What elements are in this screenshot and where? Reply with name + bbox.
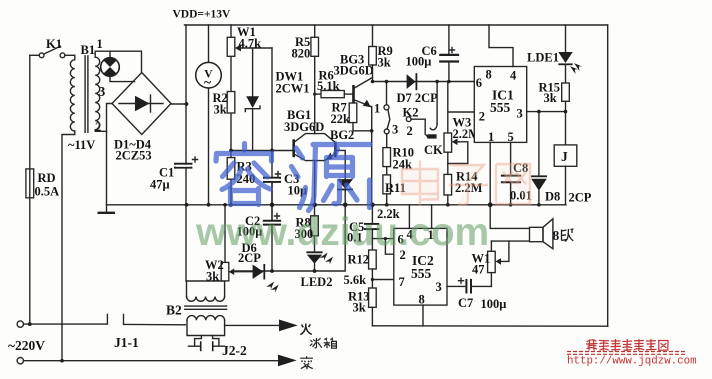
pin5 to C8 [510, 142, 512, 175]
wire fuse to live terminal [29, 198, 31, 324]
B2 primary box [187, 280, 225, 282]
pin1 to bus [489, 142, 491, 204]
diode D7 [397, 73, 439, 105]
transformer B2 [166, 281, 247, 358]
svg-text:5.6k: 5.6k [344, 273, 367, 287]
pink watermark char dian [402, 161, 438, 207]
svg-text:3k: 3k [214, 103, 227, 117]
BG2 base wire right and diode to bus [335, 150, 345, 179]
red stamp chinese [587, 340, 669, 351]
svg-text:3DG6D: 3DG6D [284, 120, 324, 134]
resistor R3 240 [227, 158, 255, 186]
switch K2 [374, 82, 418, 139]
B1 primary bottom to neutral [62, 131, 75, 361]
svg-text:B2: B2 [166, 303, 182, 318]
svg-text:3k: 3k [353, 301, 366, 315]
pin7 wire [372, 279, 393, 281]
red dashed rules [567, 351, 686, 353]
B1 secondary winding [94, 51, 96, 57]
blue watermark char 2 (yuan) [292, 145, 371, 211]
svg-text:555: 555 [411, 266, 432, 281]
svg-text:3: 3 [392, 123, 398, 137]
resistor R7 22k [331, 94, 372, 131]
svg-text:1: 1 [374, 102, 380, 116]
svg-text:LDE1: LDE1 [527, 51, 559, 65]
svg-text:www.dziuu.com: www.dziuu.com [195, 211, 489, 254]
svg-text:100μ: 100μ [481, 297, 507, 311]
label fire [300, 324, 312, 335]
IC1 555 [474, 25, 526, 144]
svg-text:2CW1: 2CW1 [276, 82, 310, 96]
svg-text:J2-2: J2-2 [222, 343, 247, 358]
pin2 jog wire [385, 239, 393, 255]
svg-text:22k: 22k [331, 112, 351, 126]
live wire with J1-1 contact [24, 315, 186, 351]
collector feed from R5/R6 node [314, 94, 316, 134]
svg-text:1: 1 [97, 37, 103, 51]
neutral output arrow [278, 355, 297, 367]
bridge rectifier D1~D4 [112, 73, 171, 163]
svg-text:5.1k: 5.1k [317, 79, 340, 93]
svg-text:2: 2 [407, 124, 413, 138]
indicator lamp [101, 51, 135, 81]
LED LDE1 [527, 25, 582, 83]
wire left drop to fuse [29, 55, 31, 169]
svg-text:~220V: ~220V [8, 338, 45, 353]
emitter vertical below butterfly [314, 161, 316, 205]
base wire R3 top to BG1 [231, 150, 294, 152]
svg-text:47: 47 [472, 263, 485, 277]
pin8 to bottom border [422, 305, 424, 326]
fire output wire with arrow [225, 320, 298, 332]
Darlington pair BG1 BG2 [284, 108, 354, 161]
svg-text:3k: 3k [544, 91, 557, 105]
BG3 emitter vertical down through bus [371, 107, 373, 205]
label ling (neutral) [300, 356, 313, 369]
B1 core [85, 56, 88, 133]
neutral wire [24, 359, 280, 363]
B2 secondary [187, 316, 225, 321]
pink watermark char wang [496, 164, 530, 205]
blue watermark char 1 (rong) [216, 144, 272, 205]
svg-text:3: 3 [436, 280, 442, 294]
svg-text:J1-1: J1-1 [114, 335, 139, 350]
speaker [530, 219, 574, 249]
svg-text:~11V: ~11V [68, 138, 95, 152]
svg-text:1: 1 [488, 130, 494, 144]
voltmeter V [196, 25, 222, 205]
top rail [185, 24, 608, 26]
svg-text:VDD=+13V: VDD=+13V [173, 9, 232, 21]
capacitor C1 [150, 157, 198, 192]
svg-text:K1: K1 [46, 37, 62, 51]
svg-text:2CZ53: 2CZ53 [116, 149, 152, 163]
potentiometer W1 47 [472, 241, 509, 286]
resistor R15 3k [539, 81, 570, 112]
capacitor C6 [406, 25, 460, 82]
jack CK [411, 82, 443, 158]
svg-text:C7: C7 [458, 296, 473, 310]
svg-text:R12: R12 [348, 253, 370, 267]
resistor R8 300 [295, 205, 319, 252]
svg-text:K2: K2 [403, 106, 419, 120]
diode on BG2 line [337, 179, 353, 205]
svg-text:47μ: 47μ [150, 178, 170, 192]
diode D6 with arrows [238, 241, 279, 293]
svg-text:3DG6D: 3DG6D [334, 64, 374, 78]
zener DW1 [245, 48, 309, 151]
label bingxiang [310, 338, 336, 348]
D7 wire [373, 81, 449, 83]
svg-text:J: J [561, 149, 568, 164]
svg-text:0.5A: 0.5A [35, 185, 60, 199]
switch K1 [30, 37, 75, 58]
svg-text:3k: 3k [378, 56, 391, 70]
main +V vertical (rail left end / C1 line / B2 primary left) [185, 25, 187, 281]
pink watermark char zi [449, 165, 488, 205]
C5 R12 R13 chain [344, 205, 380, 326]
svg-text:B1: B1 [81, 43, 96, 57]
potentiometer W1 4.7k [227, 25, 272, 56]
LED2 [301, 251, 334, 289]
svg-text:8: 8 [419, 293, 425, 307]
pin6 wire IC2 [372, 238, 393, 240]
svg-text:820: 820 [292, 47, 311, 61]
bridge minus rail to ground bus [107, 104, 113, 205]
svg-text:2: 2 [479, 110, 485, 124]
below bus continuation to LED2 wire [233, 205, 345, 271]
B1 primary winding [74, 55, 76, 60]
capacitor C2 [237, 205, 282, 271]
capacitor C7 [458, 278, 506, 311]
svg-text:CK: CK [424, 143, 443, 157]
resistor R2 3k [213, 91, 235, 117]
svg-text:http://www.jqdzw.com: http://www.jqdzw.com [567, 356, 697, 368]
svg-text:2CP: 2CP [569, 191, 592, 205]
B1 tap2 wire [95, 130, 106, 132]
resistors R10 24k R11 [377, 134, 414, 221]
resistor R5 820 [292, 25, 319, 94]
pin3 wire to C7 [447, 285, 465, 287]
bridge plus stub [171, 103, 187, 105]
ground symbol [98, 205, 116, 213]
J2-2 contact [195, 336, 202, 347]
svg-text:RD: RD [38, 171, 56, 185]
diode D8 [531, 112, 592, 205]
relay J [554, 112, 577, 205]
fuse RD [26, 169, 59, 199]
capacitor C3 [263, 172, 307, 198]
W1 wiper drop / C3 line [271, 48, 273, 221]
svg-text:8: 8 [486, 68, 492, 82]
bottom border [372, 325, 607, 327]
svg-text:6: 6 [476, 76, 482, 90]
B2 core [185, 306, 227, 309]
transformer B1 [62, 37, 142, 361]
svg-text:4: 4 [510, 69, 517, 83]
svg-text:8: 8 [553, 228, 560, 243]
right border [607, 25, 609, 326]
svg-text:7: 7 [399, 275, 405, 289]
pin4 pin1 to bus [408, 205, 410, 229]
svg-text:4.7k: 4.7k [239, 37, 262, 51]
svg-text:D7 2CP: D7 2CP [397, 91, 439, 105]
svg-text:LED2: LED2 [301, 275, 333, 289]
B1 tap1 wire [95, 51, 141, 72]
capacitor C8 [501, 161, 532, 205]
svg-text:BG2: BG2 [330, 128, 354, 142]
potentiometer W2 3k [205, 205, 253, 284]
resistor R9 3k [369, 25, 393, 82]
svg-text:3k: 3k [206, 270, 219, 284]
IC2 555 [394, 228, 447, 307]
potentiometer W3 2.2M [444, 82, 480, 175]
pin6 wire [449, 81, 474, 83]
svg-text:3: 3 [517, 107, 523, 121]
svg-text:D8: D8 [545, 190, 560, 204]
resistor R14 2.2M [444, 170, 483, 205]
transistor BG3 [334, 53, 374, 108]
ground bus [107, 204, 567, 206]
speaker wires [490, 205, 529, 229]
svg-text:~: ~ [204, 75, 211, 90]
W1 R2 R3 vertical chain [230, 25, 232, 205]
pin3 wire [527, 111, 566, 113]
pin2 wire [448, 111, 475, 113]
svg-text:555: 555 [490, 100, 511, 115]
svg-text:100μ: 100μ [406, 55, 432, 69]
220V terminals [8, 321, 45, 364]
resistor R6 5.1k horizontal [315, 69, 354, 98]
